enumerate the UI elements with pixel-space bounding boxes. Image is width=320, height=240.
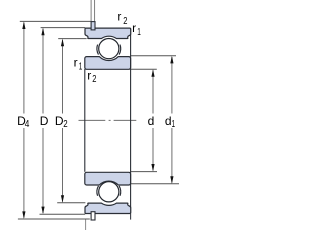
svg-text:r: r <box>117 10 121 24</box>
dimension line d1 <box>171 57 173 183</box>
ball top <box>99 39 119 59</box>
svg-text:r: r <box>87 68 91 82</box>
cropped extension line bottom left <box>85 219 87 230</box>
snap ring width extension lines (cropped at top) <box>90 0 92 21</box>
centerline (shaft axis, dash-dot) <box>79 119 137 121</box>
dimension line D4 <box>23 23 25 218</box>
svg-text:D: D <box>40 114 49 128</box>
bearing faces gap lines <box>84 69 86 172</box>
extension line D2 bottom <box>57 202 85 204</box>
extension line D2 top <box>58 38 86 40</box>
svg-text:1: 1 <box>137 27 141 38</box>
snap ring (tab in groove) <box>91 22 95 30</box>
svg-text:2: 2 <box>92 74 97 85</box>
svg-text:r: r <box>132 21 136 35</box>
svg-text:1: 1 <box>172 119 176 130</box>
extension line d1 bottom <box>131 183 179 185</box>
extension line D top <box>41 27 86 29</box>
inner ring bottom <box>85 172 131 185</box>
dimension line D <box>42 29 44 213</box>
inner ring top <box>85 57 131 70</box>
extension line D4 bottom <box>18 218 90 220</box>
extension line D bottom <box>40 213 86 215</box>
right face stub below bottom bearing <box>130 214 132 220</box>
extension line d bottom <box>131 171 157 173</box>
cage bottom <box>97 186 99 196</box>
dimension line D2 <box>62 40 64 202</box>
outer ring bottom <box>85 203 131 213</box>
cage (arcs beside ball) <box>97 45 99 55</box>
snap ring bottom (tab) <box>91 212 95 220</box>
svg-text:2: 2 <box>123 16 128 27</box>
svg-text:1: 1 <box>79 61 83 72</box>
svg-text:4: 4 <box>25 119 30 130</box>
svg-text:d: d <box>148 114 155 128</box>
svg-text:2: 2 <box>63 119 68 130</box>
svg-text:r: r <box>74 56 78 70</box>
extension line D4 top <box>20 20 91 22</box>
extension line d top <box>131 68 157 70</box>
extension line d1 top <box>131 55 176 57</box>
dimension line d <box>152 70 154 170</box>
ball bottom <box>99 182 119 202</box>
outer ring top <box>85 28 131 38</box>
